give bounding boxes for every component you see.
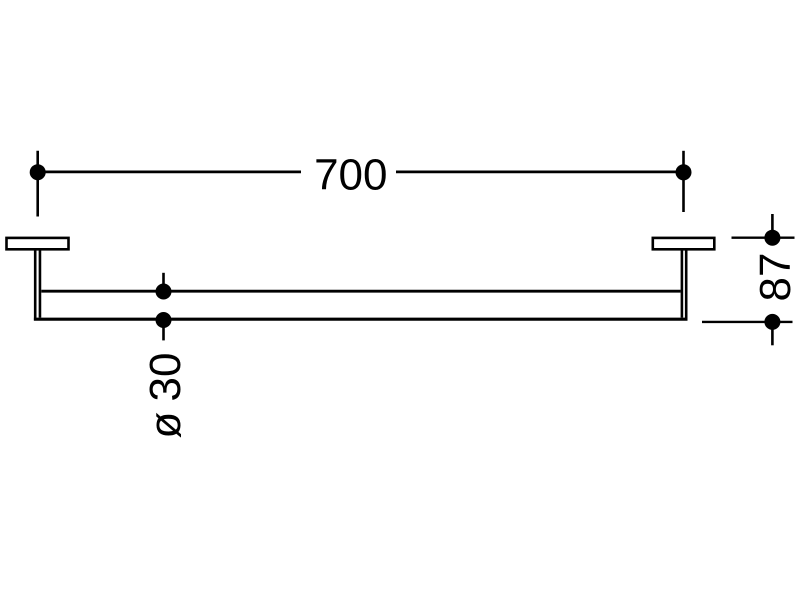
dim-700 line right segment <box>396 171 684 174</box>
svg-text:ø: ø <box>141 412 190 439</box>
dim-87 top extension line <box>732 236 795 238</box>
right post line inner <box>681 250 684 318</box>
left wall plate <box>7 238 69 249</box>
bar top edge line <box>41 290 680 293</box>
dim-700 left extension tick <box>36 151 39 217</box>
svg-text:700: 700 <box>314 151 387 200</box>
dim-87 top dot <box>764 230 780 246</box>
dim-ø30 tick below bottom dot <box>162 320 165 340</box>
bar bottom edge line <box>34 318 688 321</box>
dim-700 line left segment <box>38 171 301 174</box>
dim-87 tick below bottom dot <box>771 322 774 345</box>
dim-ø30 bottom dot <box>156 312 172 328</box>
svg-text:87: 87 <box>751 253 800 302</box>
dim-87 tick above top dot <box>771 214 774 238</box>
dim-ø30 tick above top dot <box>162 273 165 292</box>
dim-87 bottom dot <box>764 314 780 330</box>
dim-87 bottom extension line <box>702 321 793 323</box>
dim-700 right dot <box>676 164 692 180</box>
svg-text:30: 30 <box>141 353 190 402</box>
left post line outer <box>34 250 37 321</box>
right wall plate <box>653 238 715 249</box>
right post line outer <box>685 250 688 321</box>
dim-ø30 top dot <box>156 284 172 300</box>
left post line inner <box>39 250 42 318</box>
dim-700 left dot <box>30 164 46 180</box>
dim-700 right extension tick <box>682 151 685 212</box>
